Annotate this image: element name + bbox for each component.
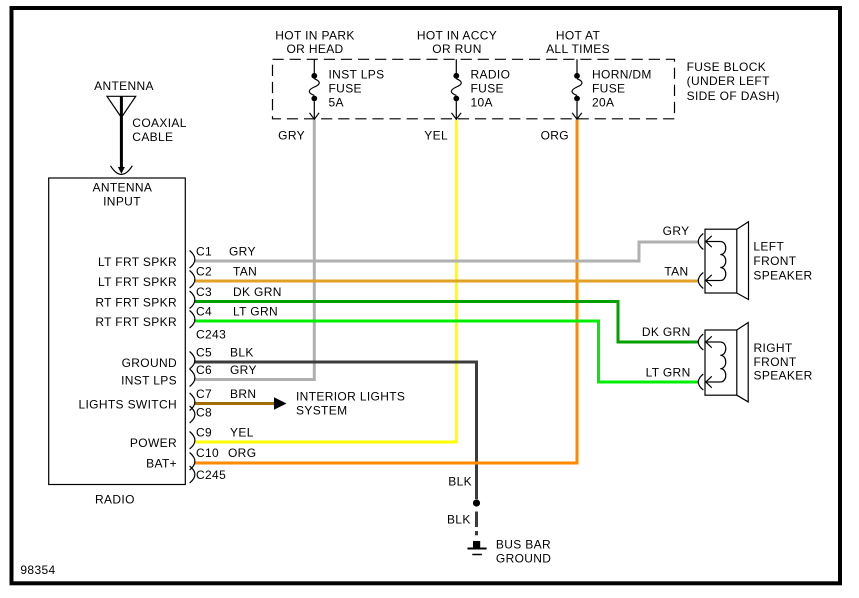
svg-text:HORN/DM: HORN/DM [592,68,652,82]
svg-text:98354: 98354 [20,563,55,577]
svg-text:INTERIOR LIGHTS: INTERIOR LIGHTS [296,390,405,404]
svg-text:RT FRT SPKR: RT FRT SPKR [95,296,177,310]
svg-text:BUS BAR: BUS BAR [496,538,551,552]
wire BLK dashed from splice to bus bar ground [475,512,478,536]
svg-text:GRY: GRY [278,129,305,143]
svg-text:HOT IN PARK: HOT IN PARK [275,29,354,43]
splice dot [473,499,480,506]
svg-text:RADIO: RADIO [95,493,135,507]
svg-text:C245: C245 [196,468,226,482]
wire YEL from RADIO fuse to radio C9 [194,120,456,442]
svg-text:ANTENNA: ANTENNA [94,79,154,93]
radio [49,178,186,507]
svg-text:C2: C2 [196,265,212,279]
wire BRN from radio C7 to interior lights system [194,390,405,418]
node HOT IN PARK OR HEAD [275,29,354,57]
svg-text:HOT IN ACCY: HOT IN ACCY [417,29,497,43]
svg-text:C1: C1 [196,245,212,259]
pin C245 [190,466,226,483]
pin C243 [196,328,226,342]
wire TAN from radio C2 to left speaker [194,280,698,283]
svg-text:SIDE OF DASH): SIDE OF DASH) [687,89,780,103]
pin C5 (GROUND) BLK [122,346,254,371]
svg-text:TAN: TAN [233,265,257,279]
pin C3 (RT FRT SPKR) DK GRN [95,285,281,310]
svg-text:C9: C9 [196,426,212,440]
svg-text:BLK: BLK [230,346,254,360]
svg-text:ALL TIMES: ALL TIMES [546,42,610,56]
svg-text:INST LPS: INST LPS [329,68,385,82]
svg-text:10A: 10A [471,96,493,110]
svg-text:ORG: ORG [541,129,569,143]
svg-text:BLK: BLK [448,475,472,489]
node HOT AT ALL TIMES [546,29,610,57]
svg-text:POWER: POWER [130,436,177,450]
pin C4 (RT FRT SPKR) LT GRN [95,305,278,330]
right front speaker [698,323,812,402]
svg-text:C8: C8 [196,406,212,420]
svg-text:(UNDER LEFT: (UNDER LEFT [687,74,771,88]
svg-text:YEL: YEL [230,426,254,440]
fuse F1 INST LPS 5A [309,59,384,119]
pin C9 (POWER) YEL [130,426,254,451]
pin C8 [190,406,212,424]
bus bar ground [468,538,552,566]
svg-text:LT GRN: LT GRN [233,305,278,319]
svg-text:LT FRT SPKR: LT FRT SPKR [98,275,177,289]
svg-text:C7: C7 [196,387,212,401]
svg-text:GROUND: GROUND [496,552,551,566]
svg-text:C3: C3 [196,285,212,299]
antenna [94,79,154,118]
svg-text:DK GRN: DK GRN [233,285,282,299]
wire GRY from radio C1 to left speaker [194,242,698,261]
svg-text:FUSE: FUSE [329,82,362,96]
svg-text:OR HEAD: OR HEAD [286,42,343,56]
svg-text:ANTENNA: ANTENNA [93,181,153,195]
wire BLK from radio C5 to splice [194,362,477,499]
svg-text:RIGHT: RIGHT [754,341,793,355]
svg-text:LT GRN: LT GRN [646,366,691,380]
svg-text:INST LPS: INST LPS [121,374,177,388]
svg-text:GRY: GRY [230,363,257,377]
wire DK GRN from radio C3 to right speaker [194,302,698,343]
svg-text:20A: 20A [592,96,614,110]
svg-text:C10: C10 [196,446,219,460]
wire GRY from INST LPS fuse to radio C6 [194,120,314,380]
svg-text:COAXIAL: COAXIAL [132,116,186,130]
svg-text:C6: C6 [196,363,212,377]
svg-text:BRN: BRN [230,387,256,401]
svg-text:C243: C243 [196,328,226,342]
svg-text:FUSE: FUSE [592,82,625,96]
pin C7 (LIGHTS SWITCH) BRN [78,387,256,412]
pin C1 (LT FRT SPKR) GRY [98,245,256,270]
svg-text:FRONT: FRONT [753,254,796,268]
fuse block enclosure [273,59,780,119]
svg-text:SPEAKER: SPEAKER [754,369,813,383]
svg-text:GRY: GRY [229,245,256,259]
svg-text:LT FRT SPKR: LT FRT SPKR [98,255,177,269]
svg-text:FRONT: FRONT [754,355,797,369]
svg-text:TAN: TAN [664,265,688,279]
svg-text:GROUND: GROUND [122,356,177,370]
svg-text:GRY: GRY [663,224,690,238]
pin C10 (BAT+) ORG [146,446,256,471]
svg-text:BLK: BLK [447,513,471,527]
svg-text:HOT AT: HOT AT [556,29,601,43]
svg-text:YEL: YEL [424,129,448,143]
svg-text:INPUT: INPUT [103,195,141,209]
svg-text:SYSTEM: SYSTEM [296,404,347,418]
svg-text:OR RUN: OR RUN [432,42,481,56]
wire ORG from HORN/DM fuse to radio C10 [194,120,577,463]
svg-text:DK GRN: DK GRN [642,325,691,339]
svg-text:C4: C4 [196,305,212,319]
svg-text:RADIO: RADIO [471,68,511,82]
svg-text:SPEAKER: SPEAKER [753,269,812,283]
svg-text:5A: 5A [329,96,344,110]
wire LT GRN from radio C4 to right speaker [194,321,698,382]
node HOT IN ACCY OR RUN [417,29,497,57]
svg-text:BAT+: BAT+ [146,457,177,471]
svg-text:LIGHTS SWITCH: LIGHTS SWITCH [78,398,177,412]
svg-text:FUSE: FUSE [471,82,504,96]
svg-text:C5: C5 [196,346,212,360]
svg-text:CABLE: CABLE [132,130,173,144]
fuse F3 HORN/DM 20A [572,59,652,119]
left front speaker [698,222,812,300]
pin C6 (INST LPS) GRY [121,363,257,388]
svg-text:ORG: ORG [228,446,256,460]
svg-text:LEFT: LEFT [753,240,784,254]
svg-text:RT FRT SPKR: RT FRT SPKR [95,315,177,329]
fuse F2 RADIO 10A [451,59,510,119]
pin C2 (LT FRT SPKR) TAN [98,265,257,290]
svg-text:FUSE BLOCK: FUSE BLOCK [687,60,767,74]
coaxial cable [111,96,187,174]
